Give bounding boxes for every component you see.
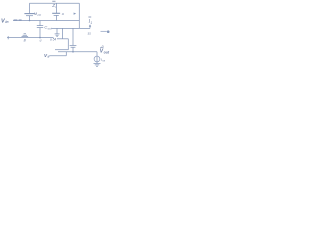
wire W1 input node (13, 20, 79, 22)
svg-text:1: 1 (90, 21, 92, 25)
junction dot C2-W4 (72, 51, 74, 53)
svg-text:u: u (50, 38, 52, 42)
component bottom line (55, 49, 68, 51)
flipped ground on W3 bars (22, 34, 29, 37)
capacitor C1 top lead (29, 3, 31, 13)
svg-text:u: u (40, 38, 42, 42)
capacitor Cout top lead (39, 21, 41, 26)
terminal tick left end of W3 (7, 36, 9, 39)
current arrow I1 vertical (89, 25, 91, 28)
junction dot Cout-W3 (39, 37, 41, 39)
svg-text:in: in (5, 20, 8, 24)
wire W5 from Vb (49, 52, 66, 56)
svg-text:v: v (39, 13, 41, 17)
thicker dashes at W1 start (14, 19, 22, 21)
wire stub down from W2 into box (62, 28, 64, 38)
wire Vout junction down (96, 52, 98, 56)
current source arrow (96, 57, 98, 62)
capacitor Cx bottom lead (55, 16, 57, 21)
capacitor C2 bottom lead (72, 47, 74, 51)
capacitor C2 top lead (72, 28, 74, 45)
capacitor Cout plates (37, 26, 43, 28)
svg-text:ss: ss (88, 32, 92, 36)
capacitor Cx top lead (55, 3, 57, 13)
ground from W2 stem (56, 28, 58, 33)
wire top rail (30, 2, 80, 4)
arrowhead on W1 near corner (74, 13, 77, 15)
svg-text:out: out (48, 26, 52, 30)
wire W4 bottom (58, 51, 97, 53)
ground from W2 bars (55, 34, 60, 37)
capacitor C1 bottom lead (29, 16, 31, 21)
svg-text:u: u (62, 12, 64, 16)
component right side (67, 39, 69, 50)
wire W2 middle (52, 27, 91, 29)
wire W3 bottom-left (7, 37, 54, 39)
capacitor C1 plates (24, 13, 34, 15)
svg-text:b: b (48, 55, 50, 59)
current source bottom lead (96, 62, 98, 63)
capacitor C2 plates (70, 46, 77, 48)
small arrow mark near Vout label (101, 30, 107, 32)
ground G2 bars (94, 64, 101, 67)
capacitor Cout bottom lead (39, 28, 41, 38)
svg-text:out: out (104, 51, 110, 55)
svg-text:B: B (24, 39, 27, 43)
junction dot C1-W1 (29, 20, 31, 22)
arrowhead current I1 (89, 24, 91, 26)
current source I_SS circle (94, 56, 100, 62)
capacitor Cx plates (52, 12, 60, 14)
svg-text:ss: ss (102, 60, 105, 63)
component top line (57, 38, 68, 40)
wire right vertical from rail to node wire (78, 3, 80, 28)
svg-text:54: 54 (53, 38, 57, 42)
